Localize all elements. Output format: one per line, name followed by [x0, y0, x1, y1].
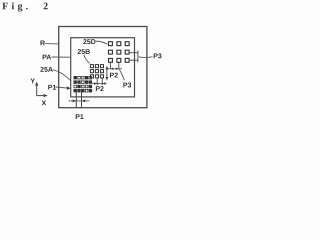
P3 bottom stems	[110, 63, 118, 70]
svg-text:R: R	[40, 40, 45, 47]
svg-text:P3: P3	[123, 82, 132, 89]
svg-text:Fig.: Fig.	[2, 1, 31, 12]
leader 25A	[53, 70, 71, 81]
pixel grid 25B (3x3 squares)	[90, 65, 103, 78]
svg-text:2: 2	[43, 1, 48, 12]
axis X	[37, 95, 46, 97]
leader PA	[52, 56, 71, 58]
leader R	[45, 43, 59, 45]
P2 bottom pitch extension lines	[97, 78, 102, 85]
pixel grid 25D (3x3 open squares)	[109, 42, 130, 63]
leader P3 inner	[119, 70, 124, 81]
svg-text:25B: 25B	[77, 49, 90, 56]
svg-text:25A: 25A	[40, 67, 53, 74]
leader P1 with arrowhead	[56, 87, 68, 88]
P3 bottom dimension line	[108, 68, 123, 70]
svg-text:Y: Y	[30, 78, 35, 85]
svg-text:P2: P2	[95, 86, 104, 93]
svg-text:PA: PA	[42, 54, 51, 61]
svg-text:P1: P1	[75, 114, 84, 120]
pixel grid 25A (5x4 small squares)	[74, 76, 92, 92]
leader 25D	[96, 41, 107, 44]
svg-text:X: X	[42, 100, 47, 107]
leader P3 right	[139, 56, 153, 59]
P3 right dimension line	[137, 51, 139, 63]
svg-text:P2: P2	[110, 72, 119, 79]
svg-text:P3: P3	[153, 53, 162, 60]
substrate R (outer rectangle)	[59, 27, 147, 108]
P1 pitch extension lines	[76, 92, 81, 107]
leader 25B	[84, 55, 90, 63]
pixel area PA (inner rectangle)	[71, 38, 135, 97]
P2 vertical pitch arrow	[106, 68, 108, 79]
P3 right pitch ticks	[129, 53, 138, 61]
P1 dimension line with arrowheads	[69, 100, 90, 102]
svg-text:25D: 25D	[83, 39, 96, 46]
svg-text:P1: P1	[48, 85, 57, 92]
P2 bottom dimension line	[92, 83, 106, 85]
